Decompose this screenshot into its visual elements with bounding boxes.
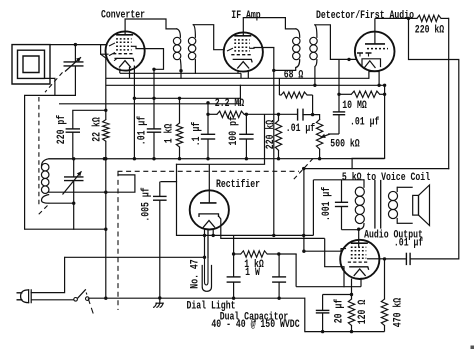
capacitor .01uf det grid	[333, 111, 345, 113]
node bus junction	[152, 157, 155, 160]
IF amp plate lead to IFT2	[243, 18, 295, 36]
svg-text:Rectifier: Rectifier	[216, 179, 260, 191]
IF amp heater lead	[237, 71, 239, 73]
filter capacitor C (right 40uf)	[272, 276, 286, 278]
node osc bottom	[72, 202, 75, 205]
capacitor .005uf	[153, 195, 167, 197]
dial light bulb	[202, 266, 211, 292]
svg-text:IF Amp: IF Amp	[231, 10, 260, 22]
wire AC hot rail	[177, 163, 265, 165]
node .1uf top	[206, 101, 209, 104]
wire 114 bus to coupling cap	[244, 113, 298, 115]
capacitor .01uf output coupling	[385, 258, 407, 260]
node det grid stub	[347, 58, 350, 61]
node 10M left	[337, 93, 340, 96]
node bus junction	[206, 157, 209, 160]
svg-text:.01 µf: .01 µf	[394, 238, 423, 250]
node cathode-bus	[133, 157, 136, 160]
output transformer T3 secondary	[396, 187, 398, 191]
wire B- drop right	[304, 298, 306, 331]
resistor 220k plate load	[417, 15, 441, 21]
audio cathode lead	[351, 279, 353, 295]
wire osc cathode tap	[49, 175, 135, 192]
svg-text:500 kΩ: 500 kΩ	[330, 138, 360, 150]
wire coupling to pot top	[303, 115, 320, 120]
converter heater lead b	[119, 69, 121, 74]
IF transformer T2 secondary	[315, 25, 317, 38]
wire AC hot left drop	[161, 164, 177, 181]
rect cathode lead to bulb	[207, 229, 209, 258]
resistor 10M	[339, 93, 351, 95]
wire .1uf top link	[208, 103, 240, 105]
wire B- line	[89, 297, 305, 299]
resistor 1k 1W	[234, 253, 241, 255]
wire wiper link	[328, 133, 339, 135]
capacitor 220pf	[66, 128, 80, 130]
svg-text:20 µf: 20 µf	[334, 299, 346, 324]
wire main bus B-	[49, 158, 385, 160]
wire lower-left horizontal	[25, 228, 106, 230]
IF amp screen stub	[250, 47, 274, 50]
wire antenna top to converter grid	[50, 44, 106, 46]
corner artifact mark	[471, 346, 474, 349]
node cathode	[350, 293, 353, 296]
rect heater lead a	[204, 229, 206, 258]
wire B- bottom right bus	[305, 331, 385, 333]
wire output transformer top	[313, 179, 364, 181]
converter tube V1	[106, 31, 145, 70]
rect cathode out	[219, 216, 221, 238]
wire	[324, 238, 326, 266]
node B- cap2	[277, 297, 280, 300]
wire IFT1 secondary top to IF amp grid	[193, 25, 223, 50]
wire heater rail step	[240, 73, 242, 78]
node rect B1a	[203, 234, 206, 237]
wire pot bottom	[319, 149, 321, 159]
svg-text:5 kΩ to Voice Coil: 5 kΩ to Voice Coil	[342, 172, 430, 184]
chassis dashed top	[118, 170, 300, 172]
node 1k left	[232, 252, 235, 255]
node 1k right	[277, 252, 280, 255]
node converter grid1/ant-trim	[104, 109, 107, 112]
svg-text:Dial Light: Dial Light	[187, 301, 236, 313]
converter heater lead	[129, 67, 131, 79]
wire audio cathode box	[325, 267, 344, 287]
node B- cap1	[232, 297, 235, 300]
converter grid arm notches	[110, 43, 115, 46]
wire det B+ riser	[303, 169, 305, 252]
wire B+ to screen node	[279, 253, 296, 255]
wire osc bottom to lower bus	[73, 203, 75, 229]
filter capacitor C (left 40uf)	[227, 276, 241, 278]
wire det grid column	[338, 59, 340, 112]
node dial light top	[203, 256, 206, 259]
node bus junction	[178, 157, 181, 160]
node IFT2 primary bottom	[272, 69, 275, 72]
node .005 bottom B-	[158, 296, 161, 299]
switch S1	[74, 298, 78, 302]
IF amplifier tube V2	[224, 32, 263, 71]
node rect B1b	[212, 234, 215, 237]
node antenna/C1 junction	[74, 43, 77, 46]
wire AC to rect heater	[177, 182, 205, 236]
svg-text:.005 µf: .005 µf	[141, 187, 153, 221]
node	[104, 157, 107, 160]
svg-text:470 kΩ: 470 kΩ	[392, 297, 404, 327]
wire AVC low section	[134, 97, 240, 99]
wire long AVC feed	[59, 103, 208, 105]
wire jog	[239, 98, 241, 104]
wire osc coil bottom	[49, 202, 74, 204]
wire det box bottom	[352, 158, 385, 168]
node col 229	[104, 228, 107, 231]
svg-text:.01 µf: .01 µf	[137, 116, 149, 145]
svg-text:1 W: 1 W	[245, 267, 260, 279]
capacitor .01uf coupling	[297, 109, 299, 121]
wire 1k-left riser	[233, 235, 235, 254]
wire det plate to 220k	[375, 17, 417, 19]
capacitor 20uf	[316, 309, 330, 311]
svg-text:No. 47: No. 47	[190, 259, 202, 288]
capacitor .01uf converter	[147, 128, 161, 130]
resistor 470k	[381, 299, 387, 326]
wire 68 right riser	[312, 95, 314, 115]
wire heater string	[65, 256, 205, 258]
node cathode-AVC	[133, 97, 136, 100]
capacitor 100pf	[239, 133, 253, 135]
capacitor .1uf	[201, 133, 215, 135]
output transformer core	[374, 180, 376, 229]
converter screen stub right	[132, 46, 164, 69]
node	[350, 330, 353, 333]
wire plate to coupling	[409, 18, 459, 259]
capacitor .001uf tone	[335, 201, 348, 203]
node AVC 1k tap	[178, 97, 181, 100]
audio output tube V4 (50C5)	[340, 240, 379, 279]
node 68 right	[311, 113, 314, 116]
svg-text:40 - 40 @ 150 WVDC: 40 - 40 @ 150 WVDC	[211, 319, 300, 331]
wire heater bottom	[296, 286, 361, 288]
wire AVC down to 10M	[384, 85, 386, 158]
wire rect B+ to audio grid2	[221, 237, 325, 239]
converter grid arms left	[101, 45, 108, 55]
svg-text:68 Ω: 68 Ω	[284, 70, 304, 82]
wire osc coil top to bus	[49, 158, 74, 160]
node audio plate	[357, 228, 360, 231]
node bus junction	[318, 157, 321, 160]
resistor 1k AVC	[176, 123, 182, 147]
svg-text:10 MΩ: 10 MΩ	[342, 100, 367, 112]
wire AVC jog down	[239, 85, 241, 98]
node	[321, 330, 324, 333]
node col-osc tap	[104, 191, 107, 194]
svg-text:Converter: Converter	[101, 10, 145, 22]
converter grid1 lead down	[105, 58, 107, 120]
wire antenna inner end to lower node	[45, 78, 55, 95]
loop antenna L1 (3 nested squares)	[12, 45, 50, 84]
wire 220pf top link	[73, 110, 106, 129]
IF amp cathode lead	[247, 71, 249, 79]
resistor 68 ohm	[281, 92, 307, 98]
IF transformer T2 primary	[296, 29, 300, 37]
converter plate lead to IFT1	[125, 19, 176, 35]
svg-text:.001 µf: .001 µf	[321, 187, 333, 221]
output transformer T3 primary	[363, 180, 365, 187]
IF transformer T1 primary	[177, 29, 181, 37]
node osc top	[72, 157, 75, 160]
wire C1 bottom to left bus	[25, 95, 76, 229]
node 220k top	[277, 113, 280, 116]
wire screen/B+ riser x=273.8	[273, 48, 275, 236]
audio grid stub right	[367, 258, 379, 260]
wire cathode node	[323, 294, 352, 296]
node IFT2 sec bottom on AVC	[313, 84, 316, 87]
node audio grid	[383, 257, 386, 260]
resistor 2.2M	[208, 113, 217, 115]
detector tube V3 (12AV6)	[355, 32, 395, 72]
node bus junction	[277, 157, 280, 160]
IF amp grid arm notch	[228, 48, 233, 50]
wire AC top to heater riser	[31, 257, 64, 292]
chassis dashed left	[117, 171, 119, 310]
wire AC bottom to switch	[31, 299, 74, 301]
audio heater lead	[360, 278, 362, 287]
wire 220k right down	[448, 18, 450, 168]
node detector AVC corner	[383, 84, 386, 87]
node bus junction	[103, 157, 106, 160]
node	[272, 234, 275, 237]
wire raw B+ rail	[205, 234, 314, 236]
volume pot arrow	[321, 134, 330, 137]
variable capacitor C1b (oscillator section)	[73, 159, 75, 177]
wire secondary to speaker bottom	[397, 222, 413, 224]
wire IFT2sec-bottom riser / AC	[264, 114, 266, 164]
variable capacitor C1a (antenna section)	[74, 45, 76, 62]
audio plate lead	[358, 229, 360, 247]
wire tone cap bottom to plate	[342, 229, 359, 231]
svg-text:Detector/First Audio: Detector/First Audio	[316, 10, 414, 22]
audio grid stub left	[304, 250, 341, 252]
svg-text:120 Ω: 120 Ω	[357, 299, 369, 324]
converter cathode lead	[133, 66, 135, 159]
svg-text:220 kΩ: 220 kΩ	[415, 25, 445, 37]
svg-text:22 kΩ: 22 kΩ	[91, 117, 103, 142]
node bus junction	[245, 157, 248, 160]
converter cathode tick	[115, 58, 118, 60]
AC plug	[29, 290, 32, 303]
wire B+ output riser	[312, 180, 314, 236]
node det plate	[407, 17, 410, 20]
wire heater riser B+	[295, 254, 297, 287]
wire IFT2 secondary top to detector	[315, 25, 356, 60]
wire 68 left riser	[278, 78, 280, 95]
node AVC .01 cap tap	[152, 97, 155, 100]
wire heater rail 2	[106, 77, 369, 79]
node	[302, 234, 305, 237]
svg-text:.01 µf: .01 µf	[286, 123, 315, 135]
wire AVC bus	[106, 84, 385, 86]
node 100pf top	[245, 113, 248, 116]
rectifier tube V5 (35W4)	[190, 190, 229, 229]
resistor 220k detector load	[275, 120, 281, 150]
resistor 120 ohm	[348, 299, 354, 326]
gang dashed link (tuning)	[45, 72, 63, 92]
resistor 22k	[103, 120, 109, 142]
node diode	[377, 84, 380, 87]
svg-text:100 pf: 100 pf	[228, 116, 240, 145]
node 10M right	[383, 93, 386, 96]
node B- x105	[104, 297, 107, 300]
wire B+ detector feed	[304, 168, 449, 170]
node B+ feed	[302, 167, 305, 170]
gang dashes pot to chassis	[294, 159, 314, 180]
svg-text:2.2 MΩ: 2.2 MΩ	[215, 98, 245, 110]
wire heater rail 1	[120, 72, 241, 74]
wire secondary to speaker top	[397, 186, 413, 188]
IF transformer T1 secondary	[193, 25, 195, 38]
detector diode step wires	[369, 72, 379, 86]
node IFT1 bottom	[179, 69, 182, 72]
node screen/B+ riser	[152, 68, 155, 71]
rect heater lead b	[212, 229, 214, 235]
oscillator coil L2	[42, 159, 49, 166]
node 2.2M left	[206, 113, 209, 116]
svg-text:.01 µf: .01 µf	[350, 117, 379, 129]
svg-text:1 kΩ: 1 kΩ	[163, 123, 175, 143]
wire grid node	[379, 258, 384, 260]
speaker	[413, 195, 419, 215]
node grid feed	[302, 250, 305, 253]
ground symbol (chassis)	[159, 298, 161, 303]
gang dashed to switch lever	[86, 293, 93, 314]
volume potentiometer 500k	[316, 120, 322, 150]
